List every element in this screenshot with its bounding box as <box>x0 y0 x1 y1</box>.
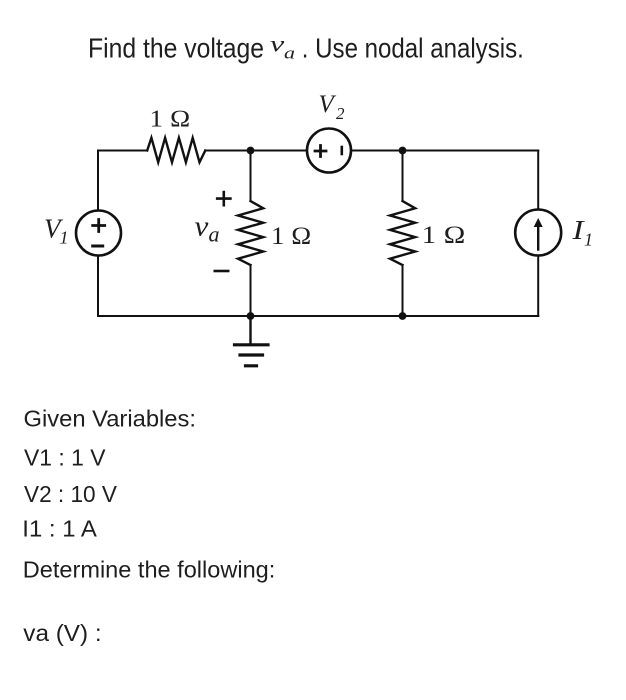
svg-text:. Use nodal analysis.: . Use nodal analysis. <box>302 33 524 64</box>
node D (junction dot, bottom right) <box>399 312 407 320</box>
wire bottom middle segment <box>251 315 403 317</box>
svg-text:va (V) :: va (V) : <box>23 620 101 646</box>
ground bars <box>235 345 269 366</box>
wire resistor R3 to node D <box>402 265 404 316</box>
wire bottom right segment <box>403 315 539 317</box>
voltage source V1 circle <box>76 211 121 256</box>
svg-text:Determine the following:: Determine the following: <box>23 557 276 583</box>
wire top-left horizontal <box>98 150 147 152</box>
wire node B to top-right corner <box>403 150 539 152</box>
V2 minus sign (vertical tick) <box>340 147 343 154</box>
resistor R2 (1 ohm, middle vertical) <box>238 201 263 265</box>
wire resistor R1 to node A <box>205 150 250 152</box>
I1 arrow (pointing up) <box>537 224 539 250</box>
ground stub wire <box>249 316 251 345</box>
V1 minus sign <box>93 245 103 248</box>
plus sign for va polarity <box>217 192 230 205</box>
wire node B to resistor R3 <box>402 151 404 202</box>
svg-text:1 Ω: 1 Ω <box>150 107 191 133</box>
current source I1 circle <box>515 210 561 256</box>
node C (junction dot, bottom middle) <box>247 312 255 320</box>
svg-text:V: V <box>319 91 337 118</box>
wire bottom left segment <box>98 315 251 317</box>
svg-text:Find the voltage: Find the voltage <box>88 33 264 64</box>
svg-text:1 Ω: 1 Ω <box>271 223 312 250</box>
wire resistor R2 to node C <box>250 265 252 316</box>
svg-text:v: v <box>195 211 209 243</box>
svg-text:Given Variables:: Given Variables: <box>24 406 197 432</box>
voltage source V2 circle <box>307 129 351 173</box>
svg-text:I1 : 1 A: I1 : 1 A <box>22 515 97 541</box>
svg-text:V2 : 10 V: V2 : 10 V <box>24 481 117 507</box>
resistor R3 (1 ohm, right vertical) <box>390 201 415 265</box>
wire right vertical upper <box>537 151 539 210</box>
svg-text:v: v <box>270 32 285 57</box>
svg-text:1: 1 <box>584 230 593 250</box>
svg-text:1: 1 <box>60 228 69 248</box>
wire right vertical lower <box>537 256 539 317</box>
node A (junction dot, top middle) <box>247 147 255 155</box>
wire left vertical lower <box>97 256 99 317</box>
resistor R1 (1 ohm, top) <box>147 138 205 163</box>
svg-text:V1 : 1 V: V1 : 1 V <box>24 445 106 471</box>
svg-text:1 Ω: 1 Ω <box>422 222 466 249</box>
svg-text:a: a <box>284 44 295 63</box>
wire voltage source V2 to node B <box>351 150 403 152</box>
wire left vertical upper <box>97 151 99 211</box>
node B (junction dot, top right) <box>399 147 407 155</box>
V2 plus sign <box>315 146 326 157</box>
svg-text:2: 2 <box>336 104 345 123</box>
V1 plus sign <box>93 220 105 232</box>
svg-text:a: a <box>209 222 220 247</box>
minus sign for va polarity <box>215 270 228 273</box>
wire node A to voltage source V2 <box>251 150 308 152</box>
wire node A to resistor R2 <box>250 151 252 202</box>
